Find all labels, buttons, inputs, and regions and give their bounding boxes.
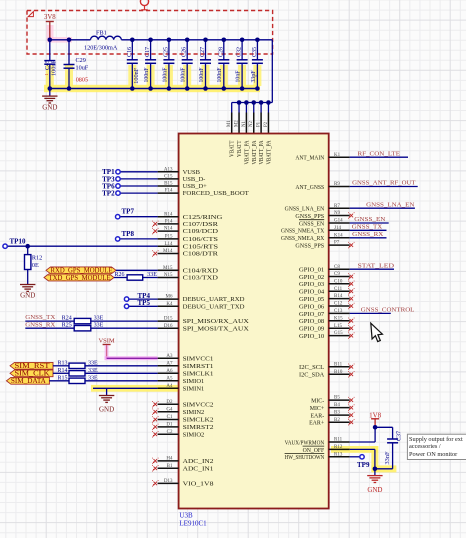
junction [251, 100, 256, 105]
svg-text:C15: C15 [164, 175, 173, 180]
wire / net label STAT_LED [350, 268, 394, 270]
wire port to R26 [114, 277, 127, 279]
junction [240, 86, 245, 91]
pin N1 VBATT_PA [245, 113, 247, 134]
svg-text:GNSS_LNA_EN: GNSS_LNA_EN [366, 201, 414, 208]
test point TP6 [116, 184, 120, 188]
svg-text:C2: C2 [167, 430, 173, 435]
svg-text:SIMCLK2: SIMCLK2 [183, 417, 214, 424]
junction [25, 244, 30, 249]
test point TP10 [3, 244, 7, 248]
junction [67, 38, 72, 43]
svg-text:GPIO_01: GPIO_01 [299, 268, 324, 274]
svg-text:C9: C9 [334, 272, 340, 277]
svg-text:USB_D+: USB_D+ [183, 183, 208, 190]
pin M1 VBATT [231, 113, 233, 134]
svg-text:GNSS_NMEA_TX: GNSS_NMEA_TX [281, 229, 325, 235]
pin G4 SIMIN2 [158, 411, 179, 413]
capacitor C29 [68, 40, 70, 65]
svg-text:N2: N2 [249, 121, 254, 127]
pin B15 USB_D+ [158, 185, 179, 187]
svg-text:G14: G14 [334, 219, 343, 224]
svg-text:ANT_MAIN: ANT_MAIN [295, 156, 324, 162]
junction [244, 100, 249, 105]
svg-text:A6: A6 [166, 369, 173, 374]
capacitor C26 100nF [186, 40, 188, 60]
svg-text:GND: GND [20, 291, 35, 299]
svg-text:K15: K15 [334, 316, 343, 321]
capacitor C25 100nF [168, 40, 170, 60]
test point TP4 [124, 297, 128, 301]
no-connect X [350, 290, 354, 294]
resistor R15 33E [69, 378, 85, 383]
wire SIM_CLK to R14 [53, 372, 69, 374]
pin M14 C108/DTR [158, 253, 179, 255]
svg-text:GNSS_NMEA_RX: GNSS_NMEA_RX [281, 236, 325, 242]
wire VSIM to SIMVCC1 [105, 356, 158, 360]
wire GNSS_RX to R25 [25, 327, 74, 329]
svg-text:U3B: U3B [179, 512, 193, 520]
power port 3V8 [47, 25, 54, 41]
svg-text:EAR+: EAR+ [309, 421, 325, 427]
pin B5 MIC- [329, 399, 350, 401]
wire SIMIN1 to GND [93, 387, 158, 389]
pin P15 C106/CTS [158, 238, 179, 240]
svg-text:STAT_LED: STAT_LED [358, 262, 395, 269]
pin D2 SIMVCC2 [158, 403, 179, 405]
wire / net label GNSS_RX [350, 237, 387, 239]
svg-text:C107/DSR: C107/DSR [183, 221, 219, 228]
svg-text:ON_OFF: ON_OFF [303, 448, 325, 454]
svg-text:C27: C27 [199, 47, 206, 57]
resistor R13 33E [69, 363, 85, 368]
svg-text:GNSS_EN: GNSS_EN [299, 221, 325, 227]
svg-text:TXD_GPS_MODULE: TXD_GPS_MODULE [49, 275, 111, 282]
no-connect X [350, 334, 354, 338]
pin C12 GPIO_06 [329, 305, 350, 307]
test point TP3 [116, 177, 120, 181]
svg-text:120E/300mA: 120E/300mA [84, 44, 118, 51]
svg-text:GNSS_LNA_EN: GNSS_LNA_EN [285, 207, 325, 213]
svg-text:A7: A7 [166, 361, 173, 366]
svg-text:R15: R15 [58, 376, 68, 382]
no-connect X [154, 252, 158, 256]
ground GND (ON_OFF / C37) [374, 469, 376, 476]
svg-text:GPIO_08: GPIO_08 [299, 319, 324, 325]
pin P1 VBATT_PA [260, 113, 262, 134]
junction [185, 38, 190, 43]
svg-text:GPIO_10: GPIO_10 [299, 334, 324, 340]
svg-text:B5: B5 [334, 396, 340, 401]
svg-text:VBATT_PA: VBATT_PA [244, 140, 250, 165]
svg-text:P1: P1 [257, 121, 262, 127]
svg-text:C13: C13 [334, 309, 343, 314]
no-connect X [350, 275, 354, 279]
wire / net label GNSS_CONTROL [350, 312, 391, 314]
svg-text:C16: C16 [126, 47, 133, 57]
svg-text:VBATT_PA: VBATT_PA [266, 140, 272, 165]
no-connect X [350, 413, 354, 417]
svg-text:VSIM: VSIM [98, 338, 114, 345]
svg-text:L14: L14 [164, 242, 173, 247]
svg-text:C35: C35 [251, 47, 258, 57]
svg-text:D15: D15 [164, 317, 173, 322]
svg-text:GNSS_ANT_RF_OUT: GNSS_ANT_RF_OUT [352, 180, 415, 187]
svg-text:SIMRST2: SIMRST2 [183, 424, 214, 431]
pin L14 C105/RTS [158, 245, 179, 247]
svg-text:A3: A3 [166, 354, 173, 359]
port TXD_GPS_MODULE [44, 274, 114, 281]
svg-text:C106/CTS: C106/CTS [183, 236, 219, 243]
capacitor C17 100nF [150, 40, 152, 60]
svg-text:R14: R14 [58, 368, 68, 374]
svg-text:VBATT_PA: VBATT_PA [259, 140, 265, 165]
svg-text:LE910C1: LE910C1 [179, 520, 207, 528]
pin P2 VBATT_PA [267, 113, 269, 134]
no-connect X [350, 282, 354, 286]
svg-text:GPIO_05: GPIO_05 [299, 297, 324, 303]
svg-text:USB_D-: USB_D- [183, 176, 206, 183]
test point TP1 [116, 170, 120, 174]
svg-text:TP10: TP10 [10, 237, 26, 245]
svg-text:A4: A4 [166, 384, 173, 389]
svg-text:TP9: TP9 [357, 461, 370, 469]
svg-text:R12: R12 [32, 255, 42, 262]
pin R9 ANT_GNSS [329, 186, 350, 188]
text note box [407, 434, 466, 459]
svg-text:EAR-: EAR- [310, 414, 324, 420]
svg-text:MIC+: MIC+ [310, 406, 325, 412]
pin B11 I2C_SCL [329, 366, 350, 368]
junction [203, 86, 208, 91]
svg-text:GPIO_04: GPIO_04 [299, 290, 324, 296]
pin C15 USB_D- [158, 178, 179, 180]
capacitor C28 100nF [223, 40, 225, 60]
svg-text:100nF: 100nF [216, 67, 223, 82]
svg-text:SPI_MISO/RX_AUX: SPI_MISO/RX_AUX [183, 318, 250, 325]
svg-text:C109/DCD: C109/DCD [183, 228, 219, 235]
wire R25 to SPI_MOSI/TX_AUX [91, 327, 158, 329]
pin R7 GNSS_LNA_EN [329, 207, 350, 209]
svg-text:0805: 0805 [76, 77, 88, 84]
pin B4 MIC+ [329, 407, 350, 409]
svg-text:C29: C29 [76, 57, 86, 64]
pin M2 VBATT [238, 113, 240, 134]
svg-text:VBATT_PA: VBATT_PA [252, 140, 258, 165]
pin M6 DEBUG_UART_RXD [158, 298, 179, 300]
svg-text:J14: J14 [334, 226, 341, 231]
port SIM_CLK [10, 370, 53, 377]
svg-text:GND: GND [99, 405, 114, 413]
ground GND (R12) [20, 284, 35, 286]
junction [67, 86, 72, 91]
capacitor C45 [49, 40, 51, 61]
pin C2 SIMIO2 [158, 433, 179, 435]
wire SIM_DATA to R15 [49, 380, 69, 382]
IC U3B LE910C1 body [179, 134, 329, 509]
svg-text:VAUX/PWRMON: VAUX/PWRMON [285, 440, 325, 446]
svg-text:L15: L15 [334, 324, 343, 329]
pin C9 GPIO_02 [329, 276, 350, 278]
wire VBATT pin N1 [245, 103, 247, 113]
pin K14 GNSS_NMEA_RX [329, 237, 350, 239]
svg-text:K14: K14 [334, 233, 343, 238]
wire C37 bottom to junction [375, 468, 393, 470]
svg-text:100nF: 100nF [161, 67, 168, 82]
svg-text:33nF: 33nF [384, 451, 391, 464]
pin K15 GPIO_08 [329, 320, 350, 322]
svg-text:R25: R25 [62, 322, 72, 328]
svg-text:GPIO_07: GPIO_07 [299, 312, 324, 318]
junction [148, 86, 153, 91]
pin C11 GPIO_04 [329, 290, 350, 292]
junction [240, 38, 245, 43]
svg-text:GNSS_RX: GNSS_RX [352, 231, 383, 238]
svg-text:0E: 0E [32, 262, 39, 269]
pin M15 C104/RXD [158, 269, 179, 271]
svg-text:GPIO_03: GPIO_03 [299, 282, 324, 288]
svg-text:33E: 33E [94, 315, 104, 321]
no-connect X [154, 467, 158, 471]
wire ON_OFF down [350, 448, 375, 450]
svg-text:F14: F14 [165, 189, 173, 194]
svg-text:ANT_GNSS: ANT_GNSS [295, 185, 324, 191]
pin R13 HW_SHUTDOWN [329, 456, 350, 458]
svg-text:I2C_SCL: I2C_SCL [299, 365, 325, 371]
wire / net label RF_CON_LTE [350, 156, 408, 158]
capacitor C27 100nF [205, 40, 207, 60]
svg-text:33pF: 33pF [250, 70, 257, 82]
pin N15 C103/TXD [158, 277, 179, 279]
pin D16 SPI_MOSI/TX_AUX [158, 327, 179, 329]
wire / net label GNSS_EN [350, 222, 389, 224]
svg-text:GPIO_06: GPIO_06 [299, 304, 324, 310]
no-connect X [154, 425, 158, 429]
pin C13 GPIO_07 [329, 312, 350, 314]
pin B1 ADC_IN1 [158, 467, 179, 469]
pin P14 C107/DSR [158, 223, 179, 225]
svg-text:GNSS_TX: GNSS_TX [25, 314, 55, 321]
wire 3V8 rail to FB1 [50, 39, 91, 41]
svg-text:R26: R26 [115, 272, 125, 278]
svg-text:P2: P2 [264, 121, 269, 127]
svg-text:FB1: FB1 [96, 30, 107, 37]
svg-text:M6: M6 [166, 295, 173, 300]
pin G14 GNSS_EN [329, 222, 350, 224]
svg-text:B15: B15 [164, 182, 173, 187]
svg-text:C32: C32 [236, 47, 243, 57]
svg-text:GNSS_CONTROL: GNSS_CONTROL [361, 307, 415, 314]
svg-text:B14: B14 [334, 294, 343, 299]
wire HW_SHUTDOWN to TP9 [350, 456, 360, 458]
pin G15 GPIO_10 [329, 335, 350, 337]
svg-text:SIMIO1: SIMIO1 [183, 378, 205, 385]
svg-text:C17: C17 [144, 47, 151, 57]
svg-text:MIC-: MIC- [311, 399, 324, 405]
resistor R14 33E [69, 371, 85, 376]
wire / net label GNSS_TX [350, 229, 387, 231]
svg-text:ADC_IN2: ADC_IN2 [183, 458, 214, 465]
wire TP3 to pin [120, 178, 157, 180]
wire VBATT pin M1 [231, 103, 233, 113]
svg-text:N1: N1 [242, 121, 247, 127]
svg-text:TP2: TP2 [102, 190, 115, 198]
wire TP6 to pin [120, 185, 157, 187]
pin N9 GNSS_PPS [329, 215, 350, 217]
junction [266, 100, 271, 105]
wire VBATT top rail [121, 39, 272, 41]
test point TP7 [116, 215, 120, 219]
selection highlight SIMIN1 wire [91, 385, 179, 392]
no-connect X [350, 365, 354, 369]
svg-text:10uF: 10uF [76, 64, 89, 71]
svg-text:DEBUG_UART_TXD: DEBUG_UART_TXD [183, 303, 245, 310]
svg-text:C12: C12 [334, 302, 343, 307]
pin C10 GPIO_03 [329, 283, 350, 285]
pin R14 C125/RING [158, 216, 179, 218]
wire TP1 to pin [120, 171, 157, 173]
junction [255, 86, 260, 91]
no-connect X [350, 319, 354, 323]
svg-text:SIMRST1: SIMRST1 [183, 363, 214, 370]
ground GND (bypass rail) [49, 89, 51, 97]
svg-text:C125/RING: C125/RING [183, 214, 223, 221]
junction [185, 86, 190, 91]
capacitor C35 33pF [256, 40, 258, 60]
junction [222, 86, 227, 91]
resistor R12 0E [27, 246, 29, 254]
svg-text:R9: R9 [334, 182, 340, 187]
wire R26 to C103/TXD [143, 277, 158, 279]
wire GNSS_TX to R24 [25, 320, 74, 322]
no-connect X [350, 373, 354, 377]
svg-text:B4: B4 [334, 403, 340, 408]
svg-text:VBATT: VBATT [237, 140, 243, 157]
pin A3 SIMVCC1 [158, 357, 179, 359]
no-connect X [154, 433, 158, 437]
no-connect X [154, 403, 158, 407]
svg-text:GPIO_02: GPIO_02 [299, 275, 324, 281]
svg-text:K4: K4 [166, 302, 173, 307]
svg-text:100nF: 100nF [180, 67, 187, 82]
svg-text:B2: B2 [334, 418, 340, 423]
wire to C37 top [375, 426, 393, 428]
pin B10 I2C_SDA [329, 373, 350, 375]
svg-text:R24: R24 [62, 315, 72, 321]
selection highlight ON_OFF net [331, 446, 378, 453]
svg-text:A13: A13 [164, 167, 173, 172]
junction [373, 467, 378, 472]
svg-text:C1: C1 [167, 415, 173, 420]
wire R13 to pin [85, 365, 158, 367]
wire R12 to GND [27, 270, 29, 285]
svg-text:H4: H4 [166, 457, 173, 462]
svg-text:B1: B1 [167, 464, 173, 469]
resistor R24 33E [74, 318, 91, 323]
svg-text:K1: K1 [334, 153, 341, 158]
junction [48, 86, 53, 91]
resistor R26 33E [127, 275, 143, 280]
port SIM_DATA [6, 377, 49, 384]
svg-text:B10: B10 [334, 370, 343, 375]
junction [203, 38, 208, 43]
junction [167, 86, 172, 91]
svg-text:TP7: TP7 [122, 208, 135, 216]
svg-text:TP8: TP8 [122, 230, 135, 238]
junction [48, 38, 53, 43]
pin B14 GPIO_05 [329, 298, 350, 300]
svg-text:100nF: 100nF [50, 60, 57, 76]
compile mask dashed box [27, 11, 273, 55]
wire TP2 to pin [120, 192, 157, 194]
no-connect X [350, 243, 354, 247]
svg-text:RXD_GPS_MODULE: RXD_GPS_MODULE [51, 268, 113, 275]
wire VBATT pin M2 [238, 103, 240, 113]
svg-text:Supply output for ext: Supply output for ext [409, 436, 463, 443]
junction [148, 38, 153, 43]
ferrite bead FB1 [91, 36, 122, 40]
svg-text:GND: GND [42, 103, 57, 111]
no-connect X [350, 420, 354, 424]
junction [259, 100, 264, 105]
wire TP10 to C105/RTS [8, 245, 158, 247]
svg-text:SIM_DATA: SIM_DATA [11, 377, 46, 385]
port RXD_GPS_MODULE [46, 267, 116, 274]
pin K4 DEBUG_UART_TXD [158, 305, 179, 307]
pin A6 SIMCLK1 [158, 372, 179, 374]
pin C8 GPIO_01 [329, 268, 350, 270]
svg-text:C25: C25 [162, 47, 169, 57]
no-connect X [154, 459, 158, 463]
no-connect X [154, 418, 158, 422]
svg-text:C8: C8 [334, 265, 340, 270]
svg-text:D13: D13 [164, 479, 173, 484]
resistor R25 33E [74, 326, 91, 331]
no-connect X [350, 326, 354, 330]
svg-text:SIMIN2: SIMIN2 [183, 409, 205, 416]
svg-text:R13: R13 [58, 361, 68, 367]
pin R11 VAUX/PWRMON [329, 441, 350, 443]
ground GND (SIMIN1) [106, 388, 108, 395]
power port circle (top) [140, 0, 148, 6]
pin A5 SIMIO1 [158, 380, 179, 382]
no-connect X [350, 214, 354, 218]
junction [255, 38, 260, 43]
capacitor C32 10nF [241, 40, 243, 60]
svg-text:R7: R7 [334, 204, 340, 209]
pin H4 ADC_IN2 [158, 460, 179, 462]
svg-text:33E: 33E [94, 322, 104, 328]
no-connect X [350, 406, 354, 410]
svg-text:D16: D16 [164, 324, 173, 329]
svg-text:ADC_IN1: ADC_IN1 [183, 465, 214, 472]
no-connect X [154, 482, 158, 486]
wire VBATT pin P1 [260, 103, 262, 113]
pin C1 SIMCLK2 [158, 419, 179, 421]
capacitor C37 33nF [392, 427, 394, 439]
pin D15 SPI_MISO/RX_AUX [158, 320, 179, 322]
junction [237, 100, 242, 105]
svg-text:GNSS_TX: GNSS_TX [352, 224, 383, 231]
svg-text:M14: M14 [163, 249, 173, 254]
pin N14 C109/DCD [158, 230, 179, 232]
svg-text:C28: C28 [217, 47, 224, 57]
svg-text:SPI_MOSI/TX_AUX: SPI_MOSI/TX_AUX [183, 325, 250, 332]
svg-text:10nF: 10nF [235, 70, 242, 82]
svg-text:C10: C10 [334, 279, 343, 284]
no-connect X [154, 222, 158, 226]
pin R12 ON_OFF [329, 448, 350, 450]
